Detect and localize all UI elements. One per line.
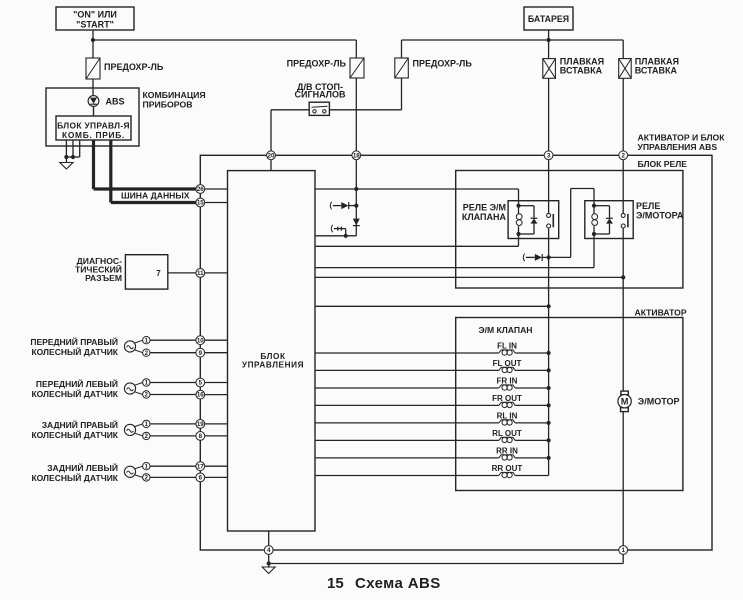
svg-text:3: 3 bbox=[547, 152, 551, 159]
svg-text:ПРЕДОХР-ЛЬ: ПРЕДОХР-ЛЬ bbox=[413, 59, 473, 69]
svg-text:9: 9 bbox=[199, 350, 203, 357]
svg-text:2: 2 bbox=[621, 152, 625, 159]
svg-text:БЛОК УПРАВЛ-Я: БЛОК УПРАВЛ-Я bbox=[57, 121, 130, 131]
svg-text:РЕЛЕ Э/М: РЕЛЕ Э/М bbox=[463, 203, 506, 213]
svg-text:БАТАРЕЯ: БАТАРЕЯ bbox=[528, 14, 569, 24]
svg-text:УПРАВЛЕНИЯ: УПРАВЛЕНИЯ bbox=[242, 361, 304, 370]
svg-text:26: 26 bbox=[197, 186, 204, 193]
svg-text:ABS: ABS bbox=[106, 96, 125, 106]
svg-text:ПРИБОРОВ: ПРИБОРОВ bbox=[143, 100, 193, 110]
svg-text:КОЛЕСНЫЙ ДАТЧИК: КОЛЕСНЫЙ ДАТЧИК bbox=[31, 429, 118, 440]
svg-text:10: 10 bbox=[197, 337, 204, 344]
svg-text:СИГНАЛОВ: СИГНАЛОВ bbox=[295, 90, 346, 100]
svg-text:РЕЛЕ: РЕЛЕ bbox=[636, 201, 660, 211]
svg-text:15: 15 bbox=[197, 200, 204, 207]
svg-text:Э/МОТОР: Э/МОТОР bbox=[638, 396, 680, 406]
svg-text:ПЕРЕДНИЙ ПРАВЫЙ: ПЕРЕДНИЙ ПРАВЫЙ bbox=[30, 336, 118, 347]
svg-text:ЗАДНИЙ ЛЕВЫЙ: ЗАДНИЙ ЛЕВЫЙ bbox=[47, 462, 118, 473]
svg-text:4: 4 bbox=[267, 547, 271, 554]
svg-text:ЗАДНИЙ ПРАВЫЙ: ЗАДНИЙ ПРАВЫЙ bbox=[42, 419, 118, 430]
svg-text:11: 11 bbox=[197, 270, 204, 277]
svg-text:КОЛЕСНЫЙ ДАТЧИК: КОЛЕСНЫЙ ДАТЧИК bbox=[31, 346, 118, 357]
svg-text:15: 15 bbox=[327, 575, 344, 592]
svg-text:FR IN: FR IN bbox=[497, 376, 518, 385]
svg-text:8: 8 bbox=[199, 433, 203, 440]
svg-text:ПЕРЕДНИЙ ЛЕВЫЙ: ПЕРЕДНИЙ ЛЕВЫЙ bbox=[36, 378, 118, 389]
svg-text:"ON" ИЛИ: "ON" ИЛИ bbox=[73, 10, 117, 20]
svg-text:M: M bbox=[621, 396, 629, 406]
svg-text:5: 5 bbox=[199, 380, 203, 387]
svg-text:БЛОК РЕЛЕ: БЛОК РЕЛЕ bbox=[638, 159, 688, 169]
svg-text:20: 20 bbox=[268, 152, 275, 159]
svg-text:RR IN: RR IN bbox=[496, 446, 518, 455]
svg-text:FL OUT: FL OUT bbox=[493, 359, 522, 368]
svg-text:РАЗЪЕМ: РАЗЪЕМ bbox=[85, 273, 122, 283]
svg-text:КОЛЕСНЫЙ ДАТЧИК: КОЛЕСНЫЙ ДАТЧИК bbox=[31, 472, 118, 483]
svg-text:КОМБИНАЦИЯ: КОМБИНАЦИЯ bbox=[143, 90, 206, 100]
svg-text:ПРЕДОХР-ЛЬ: ПРЕДОХР-ЛЬ bbox=[287, 59, 347, 69]
svg-text:RR OUT: RR OUT bbox=[492, 464, 523, 473]
svg-text:16: 16 bbox=[197, 392, 204, 399]
svg-text:6: 6 bbox=[199, 475, 203, 482]
svg-text:ПРЕДОХР-ЛЬ: ПРЕДОХР-ЛЬ bbox=[104, 62, 164, 72]
svg-text:КЛАПАНА: КЛАПАНА bbox=[462, 212, 507, 222]
svg-text:18: 18 bbox=[353, 152, 360, 159]
svg-text:Э/МОТОРА: Э/МОТОРА bbox=[636, 211, 684, 221]
svg-text:КОЛЕСНЫЙ ДАТЧИК: КОЛЕСНЫЙ ДАТЧИК bbox=[31, 388, 118, 399]
svg-text:"START": "START" bbox=[76, 20, 114, 30]
svg-text:АКТИВАТОР: АКТИВАТОР bbox=[635, 308, 687, 318]
svg-text:ВСТАВКА: ВСТАВКА bbox=[560, 66, 603, 76]
svg-text:ШИНА ДАННЫХ: ШИНА ДАННЫХ bbox=[121, 191, 190, 201]
svg-text:RL OUT: RL OUT bbox=[492, 429, 522, 438]
svg-text:УПРАВЛЕНИЯ ABS: УПРАВЛЕНИЯ ABS bbox=[638, 142, 718, 152]
svg-text:FR OUT: FR OUT bbox=[492, 394, 522, 403]
svg-text:17: 17 bbox=[197, 463, 204, 470]
svg-text:7: 7 bbox=[156, 269, 161, 278]
svg-text:FL IN: FL IN bbox=[497, 341, 517, 350]
svg-text:Э/М КЛАПАН: Э/М КЛАПАН bbox=[478, 325, 532, 335]
svg-text:АКТИВАТОР И БЛОК: АКТИВАТОР И БЛОК bbox=[638, 133, 726, 143]
svg-text:ВСТАВКА: ВСТАВКА bbox=[635, 66, 678, 76]
svg-text:Схема ABS: Схема ABS bbox=[355, 575, 441, 592]
svg-text:RL IN: RL IN bbox=[497, 411, 518, 420]
svg-text:КОМБ. ПРИБ.: КОМБ. ПРИБ. bbox=[62, 130, 125, 140]
svg-text:1: 1 bbox=[621, 547, 625, 554]
svg-text:19: 19 bbox=[197, 421, 204, 428]
